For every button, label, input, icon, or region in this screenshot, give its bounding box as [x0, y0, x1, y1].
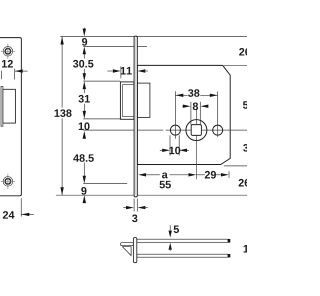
- dim 5: [169, 225, 171, 231]
- dim 12: [2, 60, 13, 68]
- spindle centre line horizontal: [137, 129, 163, 131]
- dim 138: [61, 37, 63, 108]
- faceplate front view: [0, 38, 21, 196]
- latch face front: [3, 89, 16, 123]
- screw hole top: [3, 47, 13, 57]
- bottom rail plan: [137, 254, 228, 257]
- dim 38: [174, 91, 176, 138]
- top rail plan: [137, 239, 228, 242]
- latch bevel plan: [122, 247, 131, 256]
- dim 8: [190, 102, 192, 125]
- wire: extension lines: [56, 37, 247, 196]
- chain labels: [82, 38, 87, 46]
- dim 24: [3, 211, 15, 219]
- right edge clipped labels: [239, 48, 259, 56]
- dim 12 left tick: [1, 71, 3, 80]
- spindle hole: [186, 120, 207, 141]
- lock case side view: [137, 65, 230, 164]
- faceplate plan: [133, 238, 136, 263]
- spindle square: [191, 125, 201, 136]
- screw hole bottom: [3, 177, 13, 187]
- dim 11: [120, 66, 122, 78]
- dim 3: [133, 199, 135, 212]
- spindle centre line vertical: [195, 109, 197, 180]
- wire: chain dimension lines x=84.3: [83, 28, 85, 203]
- dim a / 55 / 29: [144, 174, 160, 176]
- latch bevel strip front: [1, 87, 3, 127]
- latch side view: [120, 82, 133, 119]
- clipped 16: [244, 245, 255, 253]
- right fixing hole: [213, 125, 223, 135]
- faceplate side view: [134, 36, 137, 197]
- left fixing hole: [170, 125, 180, 135]
- latch bar plan: [121, 243, 134, 246]
- latch housing: [137, 83, 150, 117]
- dim 10: [169, 135, 171, 155]
